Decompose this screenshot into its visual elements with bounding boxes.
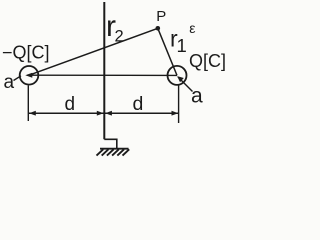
extension left [27,86,29,122]
r2 line [29,28,158,75]
svg-text:2: 2 [115,28,124,46]
dim arrow left out [29,111,36,116]
svg-text:a: a [191,85,203,108]
dimension line [29,112,178,114]
ground bar [100,148,129,150]
ground hatch [97,149,130,155]
wire between charges [27,74,177,76]
r1 line [158,28,177,75]
svg-text:−Q[C]: −Q[C] [2,43,50,63]
svg-text:d: d [133,93,144,115]
arrowhead at -Q center [25,73,32,78]
leader a right [178,77,193,92]
dim arrow center left-pointing [105,111,112,116]
dim arrow center right-pointing [97,111,104,116]
charge +Q circle [168,66,187,85]
extension right [178,86,180,124]
leader a left [14,76,22,81]
svg-text:Q[C]: Q[C] [189,51,226,71]
svg-text:d: d [65,94,76,115]
svg-text:1: 1 [177,35,187,56]
dim arrow right out [172,111,179,116]
svg-text:ε: ε [189,20,195,36]
conductor plane center line [103,2,105,139]
charge -Q circle [20,66,39,85]
node P dot [156,26,161,31]
svg-text:a: a [4,72,15,93]
svg-text:P: P [156,8,166,25]
wire step to ground [104,139,117,148]
arrowhead on right leader [177,76,184,82]
